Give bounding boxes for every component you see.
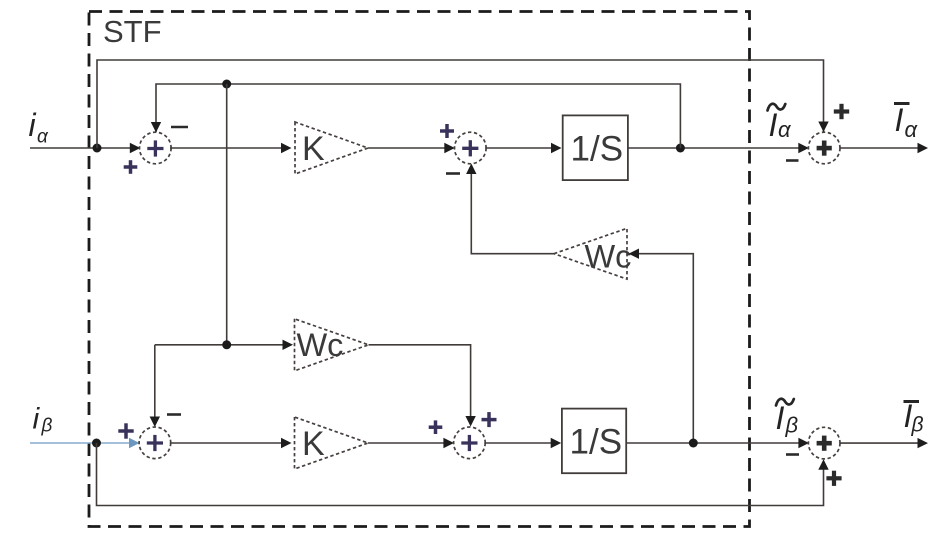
wire: box1 to S5 [628,147,801,149]
sign + at S5 top input [834,104,849,119]
svg-text:I: I [895,102,904,138]
wire: K1 to S2 [368,147,446,149]
svg-text:1/S: 1/S [571,130,624,169]
wire: beta state up to Wc1 input [634,254,693,442]
wire: Wc2 input line [155,344,288,346]
wire: alpha state feedback [156,84,680,148]
svg-text:K: K [302,425,325,463]
gain K1 triangle [295,122,368,174]
svg-text:β: β [41,416,53,437]
wire: cross branch down to Wc2 input [226,84,228,345]
summing junction S6 (output beta) [808,427,840,459]
label i_alpha [29,107,50,148]
svg-text:β: β [911,414,924,437]
svg-text:i: i [29,107,37,143]
label I~_alpha [768,104,793,143]
node A: input junction alpha [93,144,102,153]
svg-text:STF: STF [103,14,162,49]
wire: S2 to integrator box1 [485,147,553,149]
integrator 1/S (alpha) [563,115,628,180]
node B: after integrator alpha [676,144,685,153]
label I~_beta [776,399,799,438]
sign + at S1 left input [124,160,138,174]
sign + at S4 left input [429,420,443,434]
gain Wc1 triangle (left pointing) [554,228,627,279]
sign + at S3 left input [118,423,133,438]
svg-text:I: I [769,107,778,143]
sign + at S2 left input [440,124,454,138]
svg-text:β: β [785,413,799,438]
sign - at S1 top input [171,126,188,129]
node F: input junction beta [92,439,101,448]
svg-text:α: α [905,117,919,142]
summing junction S1 [140,132,172,164]
wire: S4 to integrator box2 [484,442,553,444]
wire: alpha feedthrough up [97,60,824,148]
sign - at S2 bottom input [446,172,460,175]
svg-text:K: K [302,130,325,168]
summing junction S4 [454,427,486,459]
label i_beta [33,403,53,437]
sign + at S4 top input [482,412,497,427]
wire: down into S3 top [154,345,156,420]
svg-text:I: I [776,400,785,436]
wire: box2 to S6 [626,442,801,444]
label Ibar_beta [904,398,924,437]
wire: S3 to K2 [170,442,283,444]
wire: i_alpha input [30,147,132,149]
svg-text:Wc: Wc [297,327,344,363]
sign + at S6 bottom input [826,471,841,486]
node C: feedback branch junction [222,80,231,89]
sign - at S6 left input [786,453,799,456]
node D: junction on Wc2 input [222,340,231,349]
summing junction S2 [455,132,487,164]
wire: S5 output [840,147,919,149]
wire: K2 to S4 [368,442,445,444]
wire: Wc1 output to S2 bottom [471,165,554,254]
summing junction S5 (output alpha) [808,132,840,164]
gain Wc2 triangle (right pointing) [295,319,369,371]
gain K2 triangle [295,417,369,469]
dashed STF boundary box [89,12,750,527]
wire: S1 to K1 [170,147,283,149]
wire: beta feedthrough down [97,443,824,506]
wire: i_beta input (blue) [30,442,131,444]
label Ibar_alpha [894,102,919,142]
svg-text:α: α [778,117,792,142]
wire: S6 output [840,442,919,444]
node E: after integrator beta [689,439,698,448]
svg-text:α: α [37,127,49,148]
svg-text:1/S: 1/S [570,423,623,462]
sign - at S5 left input [786,159,799,162]
summing junction S3 [139,427,171,459]
integrator 1/S (beta) [562,409,626,474]
wire: Wc2 output to S4 top [369,345,471,420]
svg-text:Wc: Wc [585,239,632,275]
sign - at S3 top input [167,413,181,416]
